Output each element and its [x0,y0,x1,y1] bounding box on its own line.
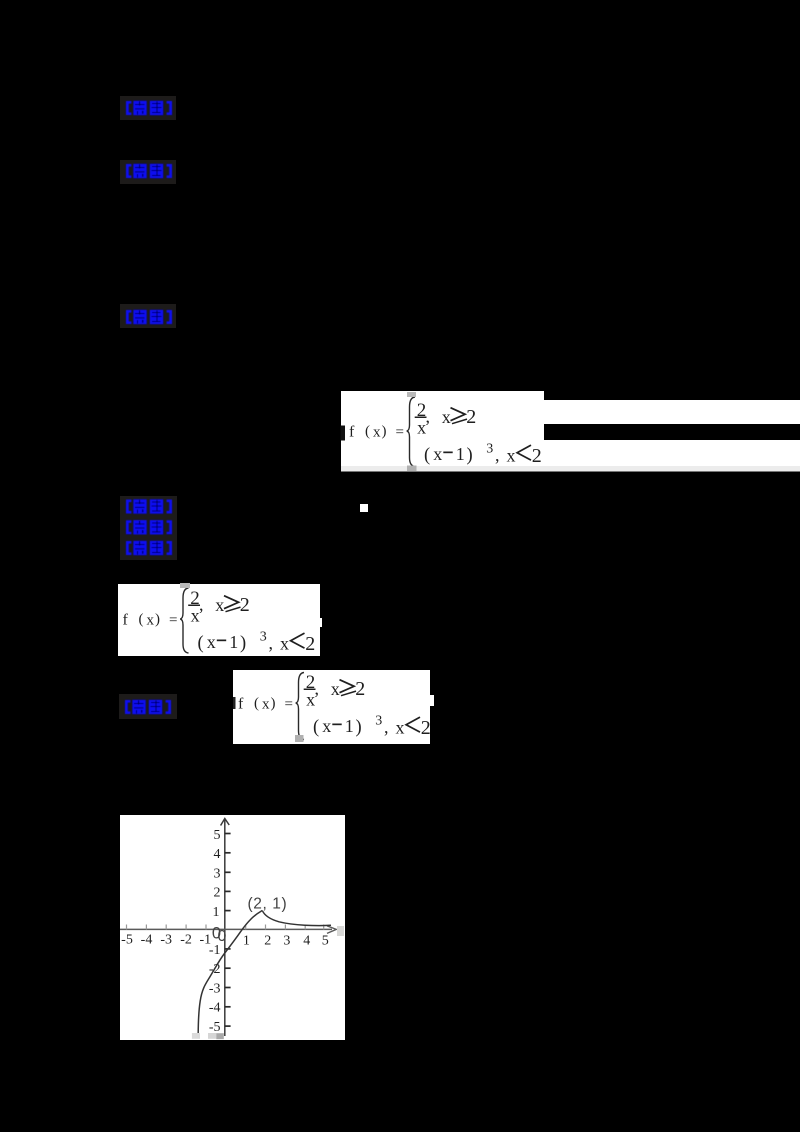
svg-text:-5: -5 [209,1020,221,1035]
svg-text:2: 2 [264,934,271,949]
svg-text:3: 3 [283,934,290,949]
label box 1 [120,96,176,120]
svg-text:-3: -3 [160,933,172,948]
y axis [224,820,226,1036]
grey smudges [192,1033,200,1039]
y axis arrowhead [221,819,230,826]
label box 3 [120,304,176,328]
svg-text:2: 2 [214,886,221,901]
svg-text:-1: -1 [209,943,221,958]
svg-text:-3: -3 [209,981,221,996]
curve left branch (x-1)^3 [198,911,262,1034]
curve right branch 2/x [262,911,331,926]
formula area 3 [233,670,434,744]
svg-text:3: 3 [214,867,221,882]
svg-text:1: 1 [213,905,220,920]
svg-text:-4: -4 [141,933,153,948]
x axis arrowhead [327,926,336,934]
svg-text:4: 4 [303,934,310,949]
label box 2 [120,160,176,184]
svg-text:(2, 1): (2, 1) [248,896,288,913]
formula 1 content [341,392,542,471]
svg-text:4: 4 [214,847,221,862]
svg-text:5: 5 [214,828,221,843]
label box 4 [119,694,177,719]
graph panel [120,815,345,1040]
svg-text:-2: -2 [180,933,192,948]
svg-text:-5: -5 [121,933,133,948]
small white square marker [360,504,368,512]
x axis [120,928,332,930]
svg-text:0: 0 [212,925,221,943]
svg-text:5: 5 [322,934,329,949]
formula area 1: white panels [341,391,800,472]
x labels [121,933,329,949]
svg-text:-4: -4 [209,1001,221,1016]
formula area 2 [118,583,322,656]
y ticks [225,834,231,1027]
x ticks [127,925,324,930]
stacked label box (3 rows) [120,496,177,560]
svg-text:1: 1 [243,934,250,949]
y labels [209,828,221,1035]
